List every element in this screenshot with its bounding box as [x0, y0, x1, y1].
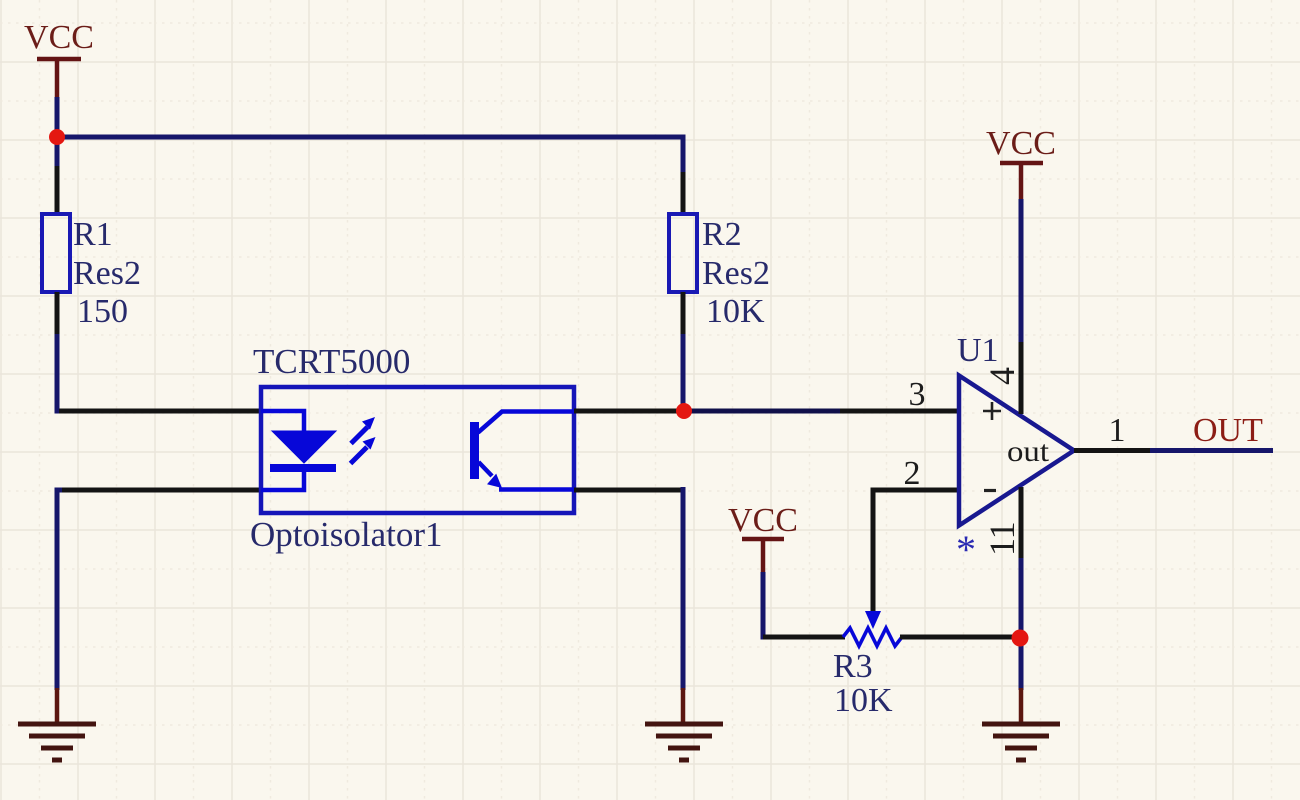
wire pin 11 to node [1019, 558, 1024, 690]
power symbol VCC (lower middle) [728, 502, 798, 574]
LED emission arrow 1 [351, 437, 376, 464]
wire VCC to R3 left [763, 572, 766, 637]
junction node at R2 / opto / op-amp [676, 403, 692, 419]
resistor R2 [669, 172, 697, 338]
svg-text:150: 150 [77, 293, 128, 330]
wire R2 bottom to node [681, 334, 686, 411]
svg-text:R1: R1 [73, 216, 113, 253]
power symbol VCC (top right) [986, 125, 1056, 201]
pin optoisolator anode (left top) [59, 409, 261, 414]
LED emission arrow 2 [351, 417, 375, 444]
resistor R1 [42, 166, 70, 338]
wire node to op-amp + input [684, 409, 850, 414]
ground (middle) [645, 688, 723, 760]
wire R1 to optoisolator anode [57, 334, 62, 411]
wire VCC to pin 4 [1019, 199, 1024, 342]
svg-text:1: 1 [1109, 412, 1126, 449]
svg-text:Res2: Res2 [702, 255, 770, 292]
ground (left) [18, 688, 96, 760]
svg-text:2: 2 [904, 455, 921, 492]
pin R3 right lead / wire to node [900, 635, 1020, 640]
wire emitter to ground middle [681, 487, 686, 690]
pin 11 of U1 (V-) [1019, 487, 1024, 560]
svg-text:VCC: VCC [24, 19, 94, 56]
minus sign (inverting input) [984, 489, 996, 492]
pin R3 left lead [763, 635, 845, 640]
svg-text:4: 4 [982, 367, 1022, 385]
svg-text:11: 11 [982, 521, 1022, 556]
svg-text:Optoisolator1: Optoisolator1 [250, 515, 442, 554]
svg-text:VCC: VCC [986, 125, 1056, 162]
svg-text:TCRT5000: TCRT5000 [253, 342, 410, 381]
svg-text:10K: 10K [706, 293, 765, 330]
svg-text:R3: R3 [833, 648, 873, 685]
svg-text:VCC: VCC [728, 502, 798, 539]
svg-text:3: 3 [909, 376, 926, 413]
svg-text:Res2: Res2 [73, 255, 141, 292]
junction node left VCC rail [49, 129, 65, 145]
LED inside optoisolator [261, 411, 336, 490]
optoisolator TCRT5000 body [261, 387, 574, 513]
svg-text:OUT: OUT [1193, 412, 1263, 449]
svg-text:U1: U1 [957, 332, 999, 369]
pin optoisolator emitter (right bottom) [574, 488, 683, 493]
phototransistor inside optoisolator [470, 412, 574, 490]
wire cathode to ground left [57, 490, 62, 690]
pin 4 of U1 (V+) [1019, 340, 1024, 414]
pin 2 of U1 and wire to R3 wiper [873, 490, 959, 614]
svg-text:10K: 10K [834, 682, 893, 719]
junction node R3 / pin 11 rail [1012, 630, 1029, 647]
op-amp U1 triangle [959, 376, 1074, 526]
plus sign (non-inverting input) [983, 402, 1001, 420]
svg-text:*: * [956, 527, 976, 572]
pin optoisolator cathode (left bottom) [59, 488, 261, 493]
potentiometer R3 [843, 611, 902, 646]
power symbol VCC (top left) [24, 19, 94, 99]
pin 1 of U1 (output) [1074, 448, 1152, 453]
wire junction to R1 [55, 137, 60, 172]
wire output net [1150, 448, 1273, 453]
ground (right) [982, 688, 1060, 760]
svg-text:R2: R2 [702, 216, 742, 253]
svg-text:out: out [1007, 435, 1050, 468]
wire top rail [57, 137, 683, 176]
pin optoisolator collector (right top) [574, 409, 684, 414]
pin 3 of U1 [840, 409, 959, 414]
wire VCC left stem [55, 97, 60, 137]
